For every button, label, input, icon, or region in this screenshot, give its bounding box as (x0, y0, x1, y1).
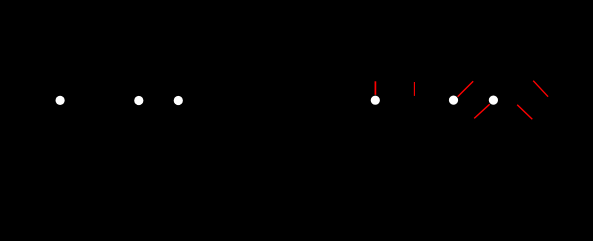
edge e4 red diagonal down-right (upper right) (533, 81, 548, 97)
edge e1 red vertical to node n4 (374, 81, 376, 95)
node n3 (left tree) (174, 96, 183, 105)
node n1 (left tree) (56, 96, 65, 105)
edge e2 red vertical (413, 82, 415, 96)
edge e3 red diagonal from node n5 up-right (458, 81, 474, 97)
node n5 (right tree) (449, 96, 458, 105)
edge e5 red diagonal up-right to node n6 (474, 104, 490, 118)
node n6 (right tree) (489, 96, 498, 105)
node n2 (left tree) (134, 96, 143, 105)
edge e6 red diagonal down-right from node n6 (517, 105, 532, 120)
node n4 (right tree) (371, 96, 380, 105)
